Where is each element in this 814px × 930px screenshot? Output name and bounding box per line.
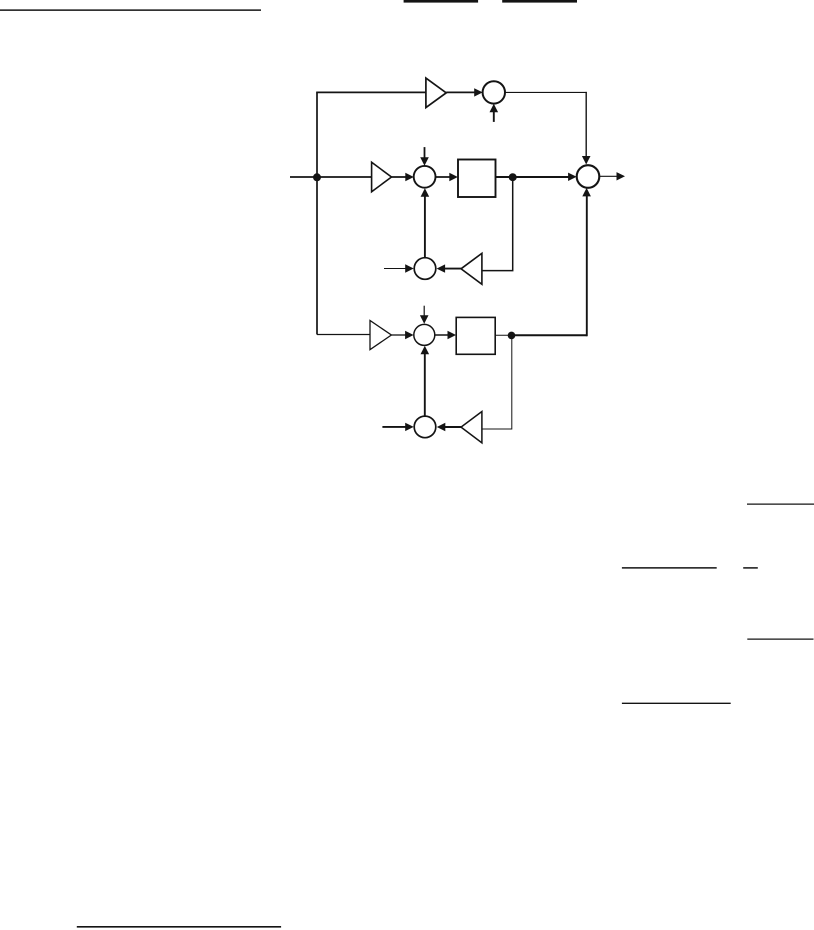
equation minus-sign bar (right margin, second short) xyxy=(743,567,758,569)
equation fraction bar (right margin, first) xyxy=(747,503,814,505)
amplifier A1 (top branch gain triangle) xyxy=(426,78,446,108)
summing node S2 (middle row adder circle) xyxy=(414,166,436,188)
wire: node A to amplifier A2 (middle row) xyxy=(317,176,372,178)
wire: stub arrow down into summer S5 from above xyxy=(423,306,425,318)
wire: amplifier A4 output into summer S5 xyxy=(391,334,406,336)
wire: summer S5 output into delay block Z2 xyxy=(435,334,452,336)
wire: left trunk vertical from top branch to bottom branch xyxy=(316,92,318,334)
wire: bottom branch horizontal from left trunk to amplifier A4 xyxy=(317,334,370,336)
delay block Z1 (middle row square) xyxy=(458,160,496,198)
wire: right trunk vertical down into summer S4 xyxy=(585,92,587,158)
summing node S5 (bottom row adder circle) xyxy=(414,324,435,345)
node A input junction dot xyxy=(313,173,321,181)
wire: delay block Z1 output to node B xyxy=(496,176,513,178)
amplifier A3 (middle feedback triangle, points left) xyxy=(461,253,482,284)
wire: amplifier A1 output to summer S1 xyxy=(446,91,479,93)
amplifier A4 (bottom row gain triangle) xyxy=(370,321,391,350)
node C junction dot (bottom row) xyxy=(508,332,516,340)
equation fraction bar (right margin, second long) xyxy=(622,567,717,569)
equation fraction bar (right margin, third) xyxy=(747,638,813,640)
wire: amplifier A3 output into summer S3 xyxy=(440,268,461,270)
wire: node B to summer S4 xyxy=(513,176,573,178)
wire: stub arrow down into summer S2 from above xyxy=(424,147,426,160)
wire: node C to right trunk corner xyxy=(512,334,587,336)
equation fraction bar (top, left) xyxy=(404,0,479,3)
summing node S4 (output adder circle) xyxy=(577,165,600,188)
wire: input lead into node A xyxy=(290,176,317,178)
equation fraction bar (top, right) xyxy=(502,0,577,3)
wire: summer S6 up into summer S5 xyxy=(424,352,426,417)
summing node S3 (middle feedback adder circle) xyxy=(414,258,436,280)
summing node S6 (bottom feedback adder circle) xyxy=(414,416,436,438)
wire: summer S2 output into delay block Z1 xyxy=(436,176,455,178)
wire: amplifier A5 output into summer S6 xyxy=(440,426,461,428)
amplifier A5 (bottom feedback triangle, points left) xyxy=(461,412,482,443)
wire: left input arrow into summer S6 xyxy=(382,426,406,428)
equation fraction bar (right margin, fourth) xyxy=(622,702,731,704)
wire: top branch horizontal to amplifier A1 xyxy=(316,91,426,93)
wire: left input arrow into summer S3 xyxy=(384,268,406,270)
wire: delay block Z2 output to node C xyxy=(495,334,511,336)
delay block Z2 (bottom row square) xyxy=(456,317,495,354)
summing node S1 (top branch adder circle) xyxy=(483,81,505,103)
wire: output lead with arrow from summer S4 xyxy=(599,175,617,177)
wire: summer S1 output to right trunk corner xyxy=(505,91,587,93)
wire: amplifier A2 output into summer S2 xyxy=(392,176,411,178)
wire: node C feedback drop to amplifier A5 (bottom feedback) xyxy=(482,335,512,429)
wire: right trunk vertical up into summer S4 from below xyxy=(586,193,588,336)
header rule top-left xyxy=(0,9,261,11)
wire: node B feedback drop to amplifier A3 (middle feedback) xyxy=(482,177,513,271)
node B junction dot (middle row) xyxy=(509,173,517,181)
amplifier A2 (middle row gain triangle) xyxy=(372,162,392,192)
footnote rule bottom-left xyxy=(77,926,281,928)
wire: stub arrow up into summer S1 from below xyxy=(493,110,495,122)
wire: summer S3 up into summer S2 xyxy=(424,194,426,258)
